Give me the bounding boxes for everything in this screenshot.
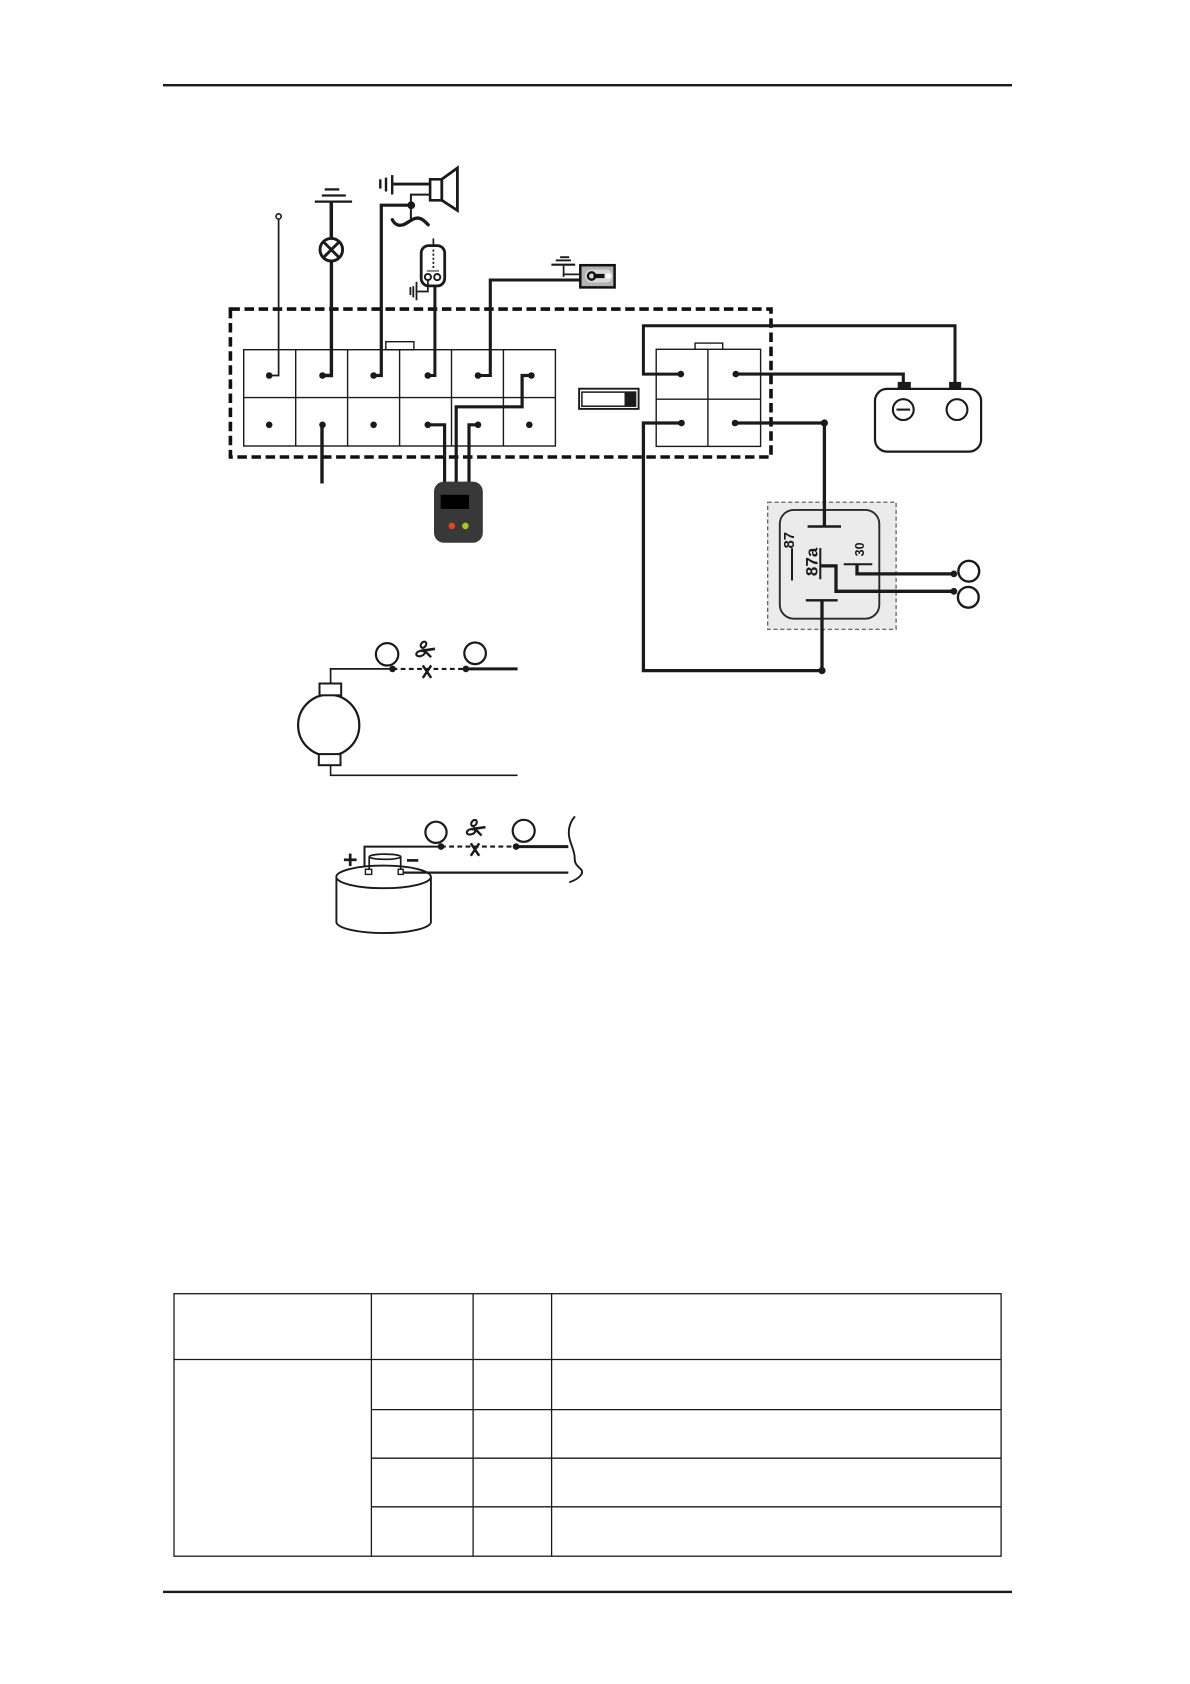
relay coil pin bottom bar xyxy=(806,599,838,601)
ground G3 (module) xyxy=(410,282,416,301)
scissors icon (motor) xyxy=(416,641,435,658)
ring terminal right (pump) xyxy=(513,820,535,842)
page bottom rule xyxy=(163,1591,1012,1593)
J2 locking tab xyxy=(695,343,723,349)
J2 pin dots xyxy=(678,371,740,427)
ring terminal left (motor) xyxy=(376,643,398,665)
ground G2 (siren) xyxy=(380,175,392,194)
wire to LED antenna module xyxy=(428,286,435,376)
pump terminal left xyxy=(365,869,371,874)
wire J2 to relay coil top xyxy=(735,423,824,527)
wire to ignition key switch xyxy=(478,280,580,376)
relay coil pin top bar xyxy=(808,525,841,527)
starter motor top wire xyxy=(331,669,390,684)
LED green xyxy=(462,523,469,530)
module internal dotted antenna xyxy=(432,250,434,269)
siren second wire xyxy=(411,195,430,202)
junction node A xyxy=(821,419,828,426)
harness continuation squiggle xyxy=(569,817,582,882)
fuse F1 holder xyxy=(579,389,639,409)
wire end dot 30 xyxy=(951,571,958,578)
module antenna stub xyxy=(432,238,434,247)
ground G1 (lamp) xyxy=(315,189,352,201)
motor wire cut dashed section xyxy=(393,668,466,670)
module buttons xyxy=(425,274,431,280)
wire J1 top pin6 to central module xyxy=(456,376,531,483)
connector J2 4-way body xyxy=(656,349,760,446)
siren wire junction xyxy=(407,201,415,209)
pump cut dot right xyxy=(513,843,520,850)
connector J1 12-way body xyxy=(244,350,556,446)
indicator lamp HL1 xyxy=(320,238,343,261)
central LED module A2 body xyxy=(434,482,483,543)
plus sign xyxy=(344,854,357,866)
ring terminal left (pump) xyxy=(425,822,446,843)
pump cut dot left xyxy=(438,843,445,850)
pump cut X mark xyxy=(471,843,479,856)
relay K1 body xyxy=(780,510,880,619)
relay contact 30 bar xyxy=(844,563,873,565)
relay contact 87 line xyxy=(791,548,793,580)
siren horn cone xyxy=(442,168,458,210)
fuel pump top wire xyxy=(365,847,439,870)
wire to indicator lamp xyxy=(323,261,332,376)
wire to siren xyxy=(374,205,408,375)
relay contact 87a line xyxy=(819,548,821,579)
ring terminal X2 xyxy=(958,587,979,608)
LED antenna module A1 body xyxy=(421,246,445,286)
wire relay 30 to ring terminal xyxy=(857,565,954,574)
svg-text:87a: 87a xyxy=(803,547,822,576)
starter motor M1 xyxy=(298,684,359,766)
motor bottom wire xyxy=(331,765,518,775)
pump wire cut dashed section xyxy=(441,846,516,848)
antenna tip xyxy=(276,214,281,219)
siren supply wire xyxy=(393,183,430,186)
motor thick wire right xyxy=(466,667,518,670)
module grey bar xyxy=(427,270,439,272)
antenna wire xyxy=(269,219,278,376)
ring terminal X1 xyxy=(958,561,979,582)
wire J2 to battery right terminal xyxy=(643,326,955,383)
motor cut X mark xyxy=(423,665,431,678)
module display window xyxy=(441,495,469,509)
fuel tank body xyxy=(336,866,431,933)
minus sign xyxy=(407,859,418,862)
module ground wire xyxy=(418,280,428,291)
J1 pin dots xyxy=(266,372,535,428)
ring terminal right (motor) xyxy=(464,643,486,665)
motor cut dot left xyxy=(389,666,396,673)
pump thick wire right xyxy=(516,845,568,848)
wire J1 pin4 to central module xyxy=(428,425,445,482)
wire J1 pin5 to central module xyxy=(469,425,478,482)
alarm control unit dashed enclosure xyxy=(230,309,771,457)
wire relay 87a to ring terminal xyxy=(820,566,954,591)
relay K1 dashed enclosure xyxy=(768,502,896,629)
ignition key switch S1 xyxy=(580,265,614,287)
service button stub wire xyxy=(320,425,323,484)
scissors icon (pump) xyxy=(466,819,485,836)
fuel pump cylinder xyxy=(369,854,401,870)
ignition switch ground wire xyxy=(564,266,582,275)
wire J2 to battery left terminal xyxy=(736,374,904,383)
wire end dot 87a xyxy=(951,588,958,595)
relay coil bottom wire inner segment xyxy=(820,600,823,631)
svg-text:87: 87 xyxy=(781,532,798,549)
junction node B xyxy=(818,667,825,674)
battery GB1 xyxy=(875,382,981,452)
siren pigtail squiggle xyxy=(392,218,428,225)
relay coil top wire inner segment xyxy=(823,501,826,527)
LED red xyxy=(449,523,456,530)
wire J2 to relay coil bottom xyxy=(643,423,822,671)
J1 locking tab xyxy=(386,342,414,350)
specifications table xyxy=(174,1294,1001,1557)
siren horn driver xyxy=(430,179,442,200)
lamp to ground wire xyxy=(330,202,334,239)
page top rule xyxy=(163,84,1012,86)
ground G4 (key switch) xyxy=(551,257,575,265)
pump terminal right xyxy=(398,869,403,874)
pump bottom wire xyxy=(403,871,568,873)
svg-text:30: 30 xyxy=(853,542,867,556)
motor cut dot right xyxy=(463,666,470,673)
siren pigtail stub xyxy=(410,209,412,220)
